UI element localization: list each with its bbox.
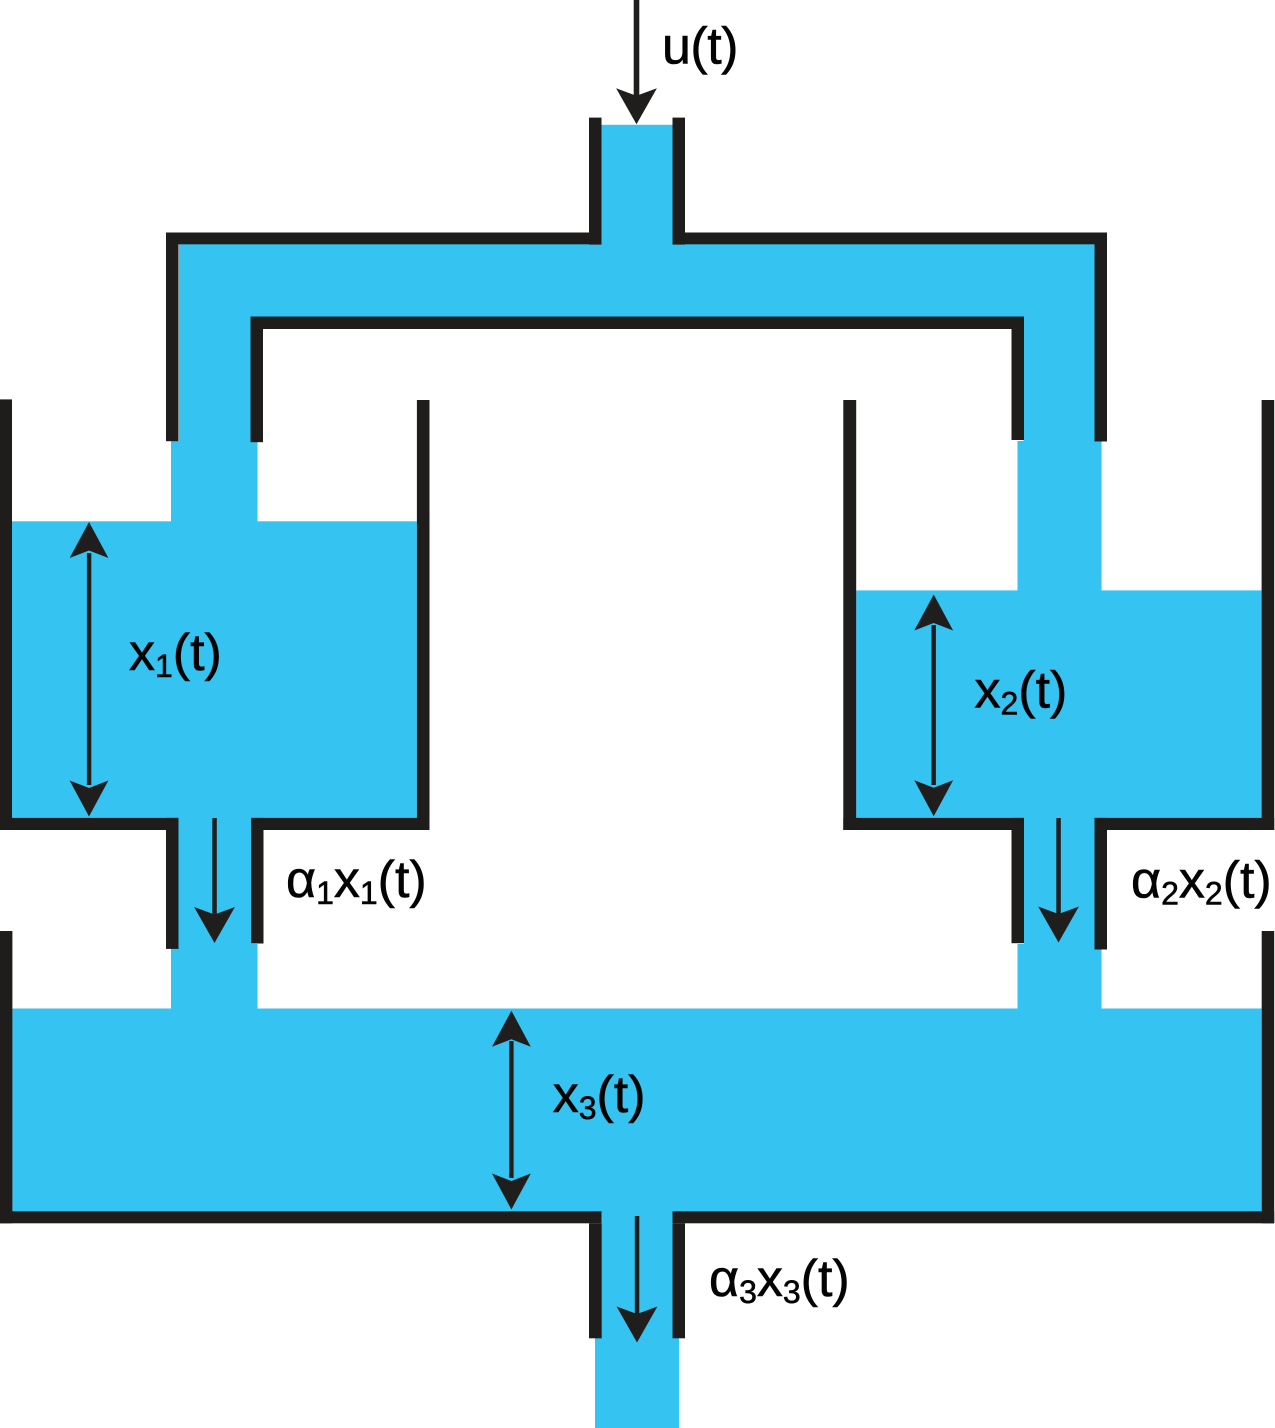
svg-text:x2(t): x2(t) <box>975 662 1068 722</box>
svg-text:α1x1(t): α1x1(t) <box>286 851 427 911</box>
svg-text:u(t): u(t) <box>662 17 738 75</box>
svg-text:α3x3(t): α3x3(t) <box>709 1250 850 1310</box>
svg-text:α2x2(t): α2x2(t) <box>1131 852 1272 912</box>
svg-text:x1(t): x1(t) <box>129 624 222 684</box>
svg-text:x3(t): x3(t) <box>553 1066 646 1126</box>
